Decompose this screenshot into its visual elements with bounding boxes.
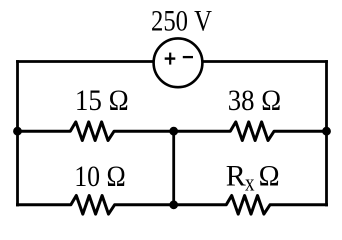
svg-text:Ω: Ω bbox=[259, 160, 280, 193]
svg-text:250 V: 250 V bbox=[151, 4, 212, 37]
svg-text:10 Ω: 10 Ω bbox=[74, 160, 126, 193]
svg-text:15 Ω: 15 Ω bbox=[75, 84, 129, 117]
svg-text:R: R bbox=[226, 160, 246, 193]
svg-text:38 Ω: 38 Ω bbox=[228, 84, 281, 117]
svg-text:x: x bbox=[245, 171, 255, 197]
